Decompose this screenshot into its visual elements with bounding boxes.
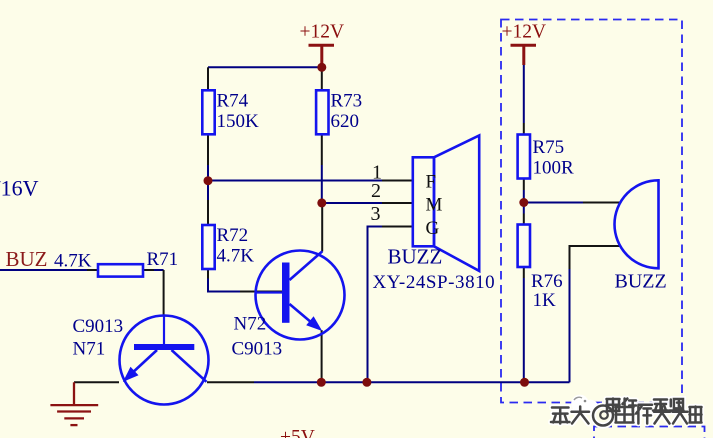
transistor Q1 N71 C9013 [73,316,209,405]
wire R76 top lead [523,203,525,226]
svg-text:150K: 150K [217,111,260,132]
node junction D3 [317,198,326,207]
wire +12V stem right to R75 [522,45,525,135]
wire Q2 emitter pin [321,330,323,382]
wire R75 bottom lead [523,179,525,203]
node junction D4 [519,198,528,207]
svg-text:C9013: C9013 [73,316,124,337]
wire R72 bottom to Q2 base [208,270,282,292]
resistor R73 [316,90,362,134]
wire top bus [208,66,322,68]
dashed box bottom-right (partial) [594,427,705,438]
svg-text:M: M [426,194,443,215]
svg-text:/16V: /16V [0,176,39,201]
svg-text:+12V: +12V [502,22,547,43]
resistor R76 [518,225,563,312]
svg-text:+12V: +12V [300,22,345,43]
svg-text:100R: 100R [533,158,575,179]
wire Q2 collector pin [321,203,323,252]
svg-text:2: 2 [371,180,381,202]
resistor R72 [202,225,254,269]
svg-text:BUZZ: BUZZ [615,271,667,293]
node junction D7 [520,378,529,387]
svg-text:R72: R72 [217,225,249,246]
svg-text:G: G [426,218,440,239]
power +12V right [502,22,547,46]
svg-text:4.7K: 4.7K [217,246,255,267]
svg-text:620: 620 [331,111,360,132]
svg-text:BUZ: BUZ [6,247,48,271]
power +12V left [300,22,345,46]
svg-text:XY-24SP-3810: XY-24SP-3810 [373,272,496,293]
wire ground to Q1 emitter [74,381,119,383]
wire R71 to Q1 base [143,270,164,316]
wire R74 top lead [207,67,209,90]
wire BUZ input [0,269,99,271]
wire node to buzzer top pin [524,202,621,204]
svg-text:1K: 1K [533,290,557,311]
wire buzzer bottom pin [570,246,621,382]
wire pin3 net [368,227,413,383]
ground [50,382,98,425]
wire R73 top lead [321,67,323,90]
node junction D1 [317,63,326,72]
svg-text:+5V: +5V [280,427,315,438]
watermark text 电路一点通 / 头条@硬件大不同 [551,399,702,426]
buzzer BUZZ right [615,180,667,292]
resistor R71 [54,249,178,277]
node junction D6 [362,378,371,387]
wire bottom bus [321,381,569,383]
wire R76 bottom to bus [523,267,525,382]
wire pin2 net [322,202,412,204]
svg-text:N72: N72 [234,314,267,335]
speaker connector BUZZ XY-24SP-3810 [373,136,496,294]
wire pin1 net [208,180,412,182]
node junction D5 [317,378,326,387]
wire +12V stem left [320,45,323,67]
watermark logo [571,395,598,416]
svg-text:F: F [426,172,437,193]
svg-text:R76: R76 [531,271,563,292]
wire Q1 collector to bus [207,381,321,383]
svg-text:R75: R75 [533,137,565,158]
svg-text:R71: R71 [147,249,179,270]
wire R73 bottom lead [321,135,323,204]
svg-text:C9013: C9013 [232,339,283,360]
svg-text:R74: R74 [217,91,249,112]
svg-text:N71: N71 [73,339,106,360]
svg-text:BUZZ: BUZZ [388,245,443,269]
svg-text:R73: R73 [331,91,363,112]
wire R72 top lead [207,181,209,226]
svg-text:4.7K: 4.7K [54,251,92,272]
svg-text:3: 3 [371,203,381,225]
dashed box (buzzer module outline) [501,20,682,403]
wire R74 bottom lead [207,135,209,182]
transistor Q2 N72 C9013 [232,251,345,360]
resistor R75 [518,135,574,179]
resistor R74 [202,90,259,134]
node junction D2 [204,176,213,185]
